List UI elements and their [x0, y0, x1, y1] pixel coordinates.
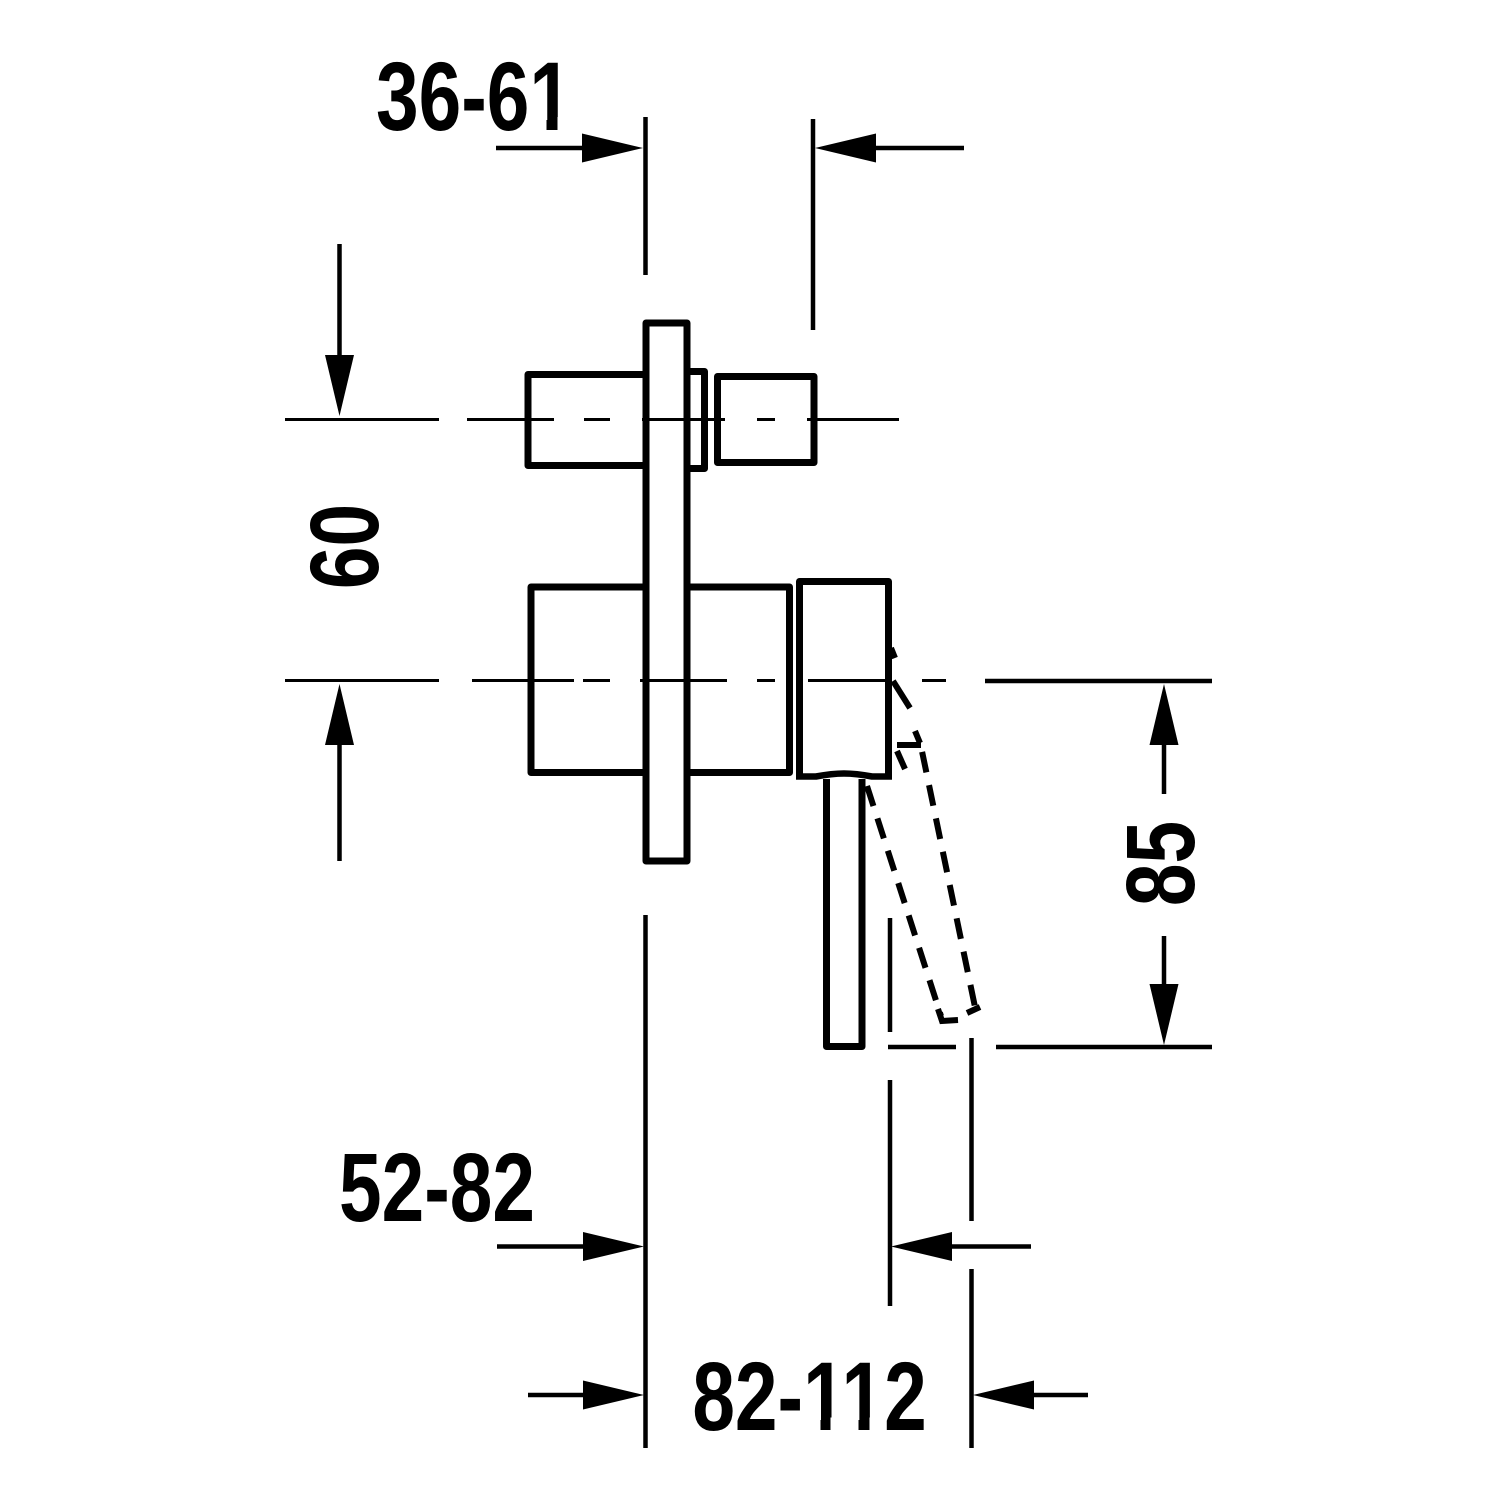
- extension line handle cap right edge: [888, 918, 893, 1306]
- dimension 82-112 left arrow: [528, 1381, 644, 1410]
- dimension text 52-82: [339, 1133, 535, 1242]
- dimension 52-82 right arrow: [891, 1232, 1031, 1261]
- lever: [827, 779, 863, 1047]
- dimension 82-112 right arrow: [973, 1381, 1088, 1410]
- svg-text:85: 85: [1106, 821, 1215, 906]
- svg-text:52-82: 52-82: [339, 1133, 535, 1242]
- svg-text:60: 60: [290, 504, 399, 589]
- dimension 52-82 left arrow: [497, 1232, 644, 1261]
- center line top valve: [285, 418, 899, 421]
- main valve left body: [531, 587, 646, 773]
- svg-text:82-112: 82-112: [692, 1342, 926, 1451]
- dimension 60 top arrow: [325, 244, 354, 416]
- dimension text 85: [1106, 821, 1215, 906]
- extension line plate left edge top: [643, 117, 648, 275]
- extension line lever tip open: [969, 1038, 974, 1448]
- extension line plate bottom: [643, 915, 648, 1448]
- dimension line 36-61 right arrow: [815, 134, 964, 163]
- dimension 85 top line: [985, 679, 1212, 684]
- dimension line 36-61 left arrow: [496, 134, 643, 163]
- main valve right body: [687, 587, 790, 773]
- dimension text 36-61: [376, 42, 572, 151]
- dimension 85 up arrow: [1150, 684, 1179, 794]
- center line main valve: [285, 679, 946, 682]
- white patches to remove serif feet of digit 1 glyphs: [531, 117, 883, 1433]
- extension line knob right edge: [811, 119, 816, 330]
- escutcheon plate: [646, 323, 687, 861]
- dimension text 60: [290, 504, 399, 589]
- dimension 85 down arrow: [1150, 936, 1179, 1045]
- dimension text 82-112: [692, 1342, 926, 1451]
- dimension 85 bottom line: [888, 1045, 1212, 1050]
- dimension 60 bottom arrow: [325, 684, 354, 861]
- top valve step: [687, 372, 705, 469]
- top valve knob: [718, 377, 815, 463]
- handle cap: [796, 582, 892, 777]
- svg-text:36-61: 36-61: [376, 42, 572, 151]
- lever dashed open position: [867, 648, 980, 1021]
- top valve left body: [528, 375, 646, 466]
